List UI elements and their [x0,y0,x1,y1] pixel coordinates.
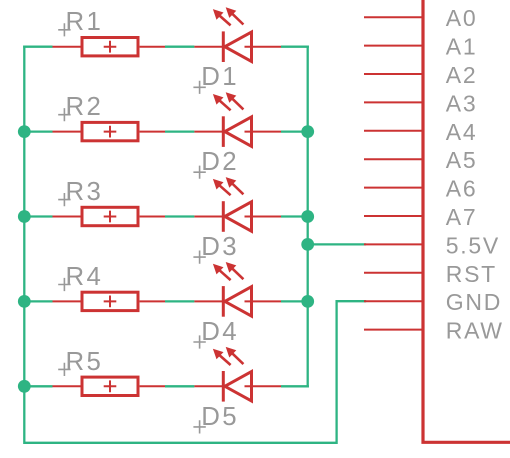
svg-text:R4: R4 [66,263,104,291]
svg-text:D3: D3 [201,233,239,261]
svg-text:R3: R3 [66,178,104,206]
svg-text:R5: R5 [66,348,104,376]
svg-text:A6: A6 [446,176,478,202]
svg-text:A4: A4 [446,119,478,145]
svg-text:D5: D5 [201,403,239,431]
svg-text:RST: RST [446,261,497,287]
svg-text:R1: R1 [66,8,104,36]
svg-text:A0: A0 [446,5,478,31]
svg-text:D4: D4 [201,318,239,346]
svg-text:R2: R2 [66,93,104,121]
svg-text:A5: A5 [446,147,478,173]
svg-text:A1: A1 [446,34,478,60]
svg-text:A7: A7 [446,204,478,230]
svg-text:GND: GND [446,289,502,315]
svg-text:A3: A3 [446,90,478,116]
svg-text:D2: D2 [201,148,239,176]
svg-text:D1: D1 [201,63,239,91]
svg-text:RAW: RAW [446,318,504,344]
svg-text:5.5V: 5.5V [446,232,500,258]
svg-text:A2: A2 [446,62,478,88]
